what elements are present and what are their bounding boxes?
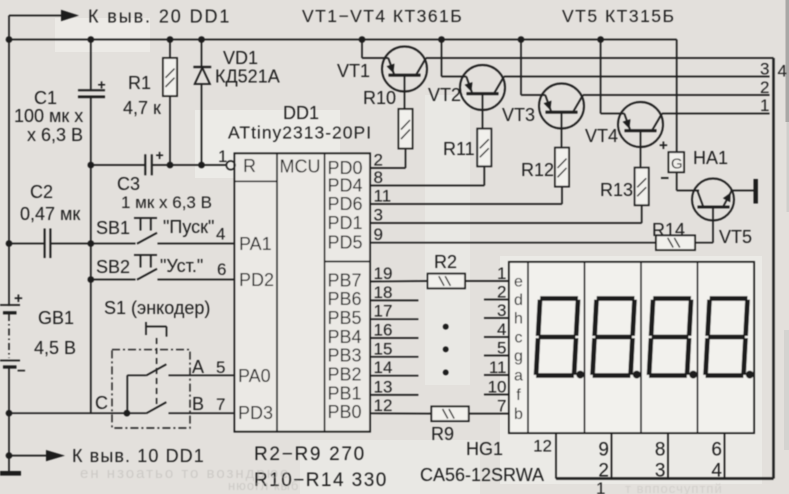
svg-text:6: 6: [217, 260, 226, 279]
svg-text:R1: R1: [128, 73, 151, 93]
svg-text:1: 1: [596, 479, 605, 494]
wire: collector of VT3 to display digit line 2: [583, 94, 770, 96]
svg-text:2: 2: [497, 282, 506, 301]
svg-text:PD2: PD2: [239, 270, 274, 290]
label VT2: [428, 85, 461, 105]
svg-text:0,47 мк: 0,47 мк: [20, 204, 80, 224]
svg-text:4: 4: [216, 225, 225, 244]
resistor R1 4.7k: [163, 40, 177, 166]
svg-text:PB4: PB4: [328, 327, 362, 347]
svg-text:R14: R14: [652, 220, 685, 240]
svg-text:PB3: PB3: [328, 346, 362, 366]
encoder shaft link symbol: [146, 322, 167, 406]
wire: PD5 row to R14: [370, 242, 656, 244]
svg-text:a: a: [514, 368, 523, 385]
label R10: [363, 88, 396, 108]
svg-text:PB6: PB6: [328, 289, 362, 309]
wire: left vertical rail (plus bus): [8, 16, 10, 473]
svg-text:R9: R9: [431, 424, 454, 444]
svg-text:PB1: PB1: [328, 384, 362, 404]
svg-text:1: 1: [218, 147, 227, 166]
svg-text:R11: R11: [443, 139, 475, 159]
encoder dash-dot boundary box: [112, 350, 190, 428]
label C2 0,47 мк: [20, 182, 80, 224]
svg-text:+: +: [98, 77, 106, 93]
pin 7 segment b: [497, 396, 523, 423]
svg-text:100 мк х: 100 мк х: [14, 106, 83, 126]
resistor R12: [555, 112, 569, 204]
label R11: [443, 139, 475, 159]
svg-text:4: 4: [778, 62, 787, 81]
svg-text:PB0: PB0: [328, 402, 362, 422]
pin 11 segment a: [489, 358, 523, 385]
svg-text:х 6,3 В: х 6,3 В: [27, 125, 83, 145]
svg-text:PA1: PA1: [239, 234, 272, 254]
pin 15 PB3: [328, 339, 393, 365]
svg-text:G: G: [671, 156, 683, 173]
svg-text:7: 7: [216, 395, 225, 414]
svg-text:6: 6: [711, 440, 722, 461]
svg-text:R10: R10: [363, 88, 396, 108]
svg-text:9: 9: [374, 225, 383, 244]
wire: collector of VT1 to display digit line 4: [426, 57, 774, 59]
pin 18 PB6: [328, 283, 393, 309]
resistor R14: [656, 235, 713, 250]
junction dots on +rail: [6, 36, 604, 43]
svg-text:b: b: [514, 406, 523, 423]
svg-text:18: 18: [374, 283, 393, 302]
svg-text:PA0: PA0: [238, 366, 271, 386]
svg-text:HA1: HA1: [693, 148, 728, 168]
svg-text:8: 8: [655, 440, 666, 461]
label C1 100 мк х 6,3 В: [14, 88, 83, 145]
display digit 4 decimal point: [746, 371, 754, 379]
display digit 2 decimal point: [633, 371, 641, 379]
svg-text:PD4: PD4: [328, 175, 363, 195]
svg-text:HG1: HG1: [466, 439, 503, 459]
svg-text:VT2: VT2: [428, 85, 461, 105]
svg-text:SB2: SB2: [96, 257, 130, 277]
svg-text:1: 1: [760, 96, 769, 115]
wire: top +supply rail: [9, 39, 677, 41]
op-amp U1: MCU DD1 ATtiny2313-20PI box: [235, 153, 371, 431]
pin 1 R input with inversion bubble: [218, 147, 256, 176]
label node B pin 7: [192, 394, 225, 414]
svg-text:"Пуск": "Пуск": [163, 217, 214, 237]
svg-text:5: 5: [216, 358, 225, 377]
svg-text:VT5: VT5: [719, 227, 752, 247]
pin 2 segment d: [497, 282, 523, 309]
svg-text:GB1: GB1: [38, 308, 74, 328]
pin 1 segment e: [497, 264, 523, 291]
wire: bottom arrow to pin 10 DD1 (common): [6, 450, 65, 461]
svg-text:C2: C2: [30, 182, 53, 202]
switch B to PD3 pin 7: [6, 402, 235, 416]
wire: digit 1 common stub pin 12 to bottom bus: [555, 433, 557, 479]
svg-text:PB5: PB5: [328, 308, 362, 328]
svg-text:15: 15: [374, 339, 393, 358]
svg-text:PD3: PD3: [238, 403, 273, 423]
svg-text:10: 10: [488, 377, 507, 396]
label node C common: [95, 393, 108, 413]
label VD1 КД521А: [215, 48, 280, 87]
pin 8 PD4: [328, 168, 383, 195]
transistor VT5 (NPN) with emitter to chassis: [677, 179, 754, 243]
svg-text:7: 7: [497, 396, 506, 415]
pin 16 PB4: [328, 321, 393, 347]
svg-text:5: 5: [497, 338, 506, 357]
svg-text:КД521А: КД521А: [215, 67, 280, 87]
svg-text:3: 3: [497, 301, 506, 320]
svg-text:e: e: [514, 274, 523, 291]
transistor VT3 (PNP): [539, 84, 584, 129]
wires: display segment stubs: [484, 300, 509, 395]
svg-text:т вппосчуптпй: т вппосчуптпй: [625, 481, 723, 494]
svg-text:B: B: [192, 394, 204, 414]
svg-text:1: 1: [497, 264, 506, 283]
svg-text:CA56-12SRWA: CA56-12SRWA: [420, 465, 544, 485]
pin 9 PD5: [328, 225, 383, 252]
wire: collector of VT2 to display digit line 3: [504, 76, 770, 78]
wire: PD0 row to R10: [370, 167, 406, 169]
label R13: [600, 180, 633, 200]
svg-text:PB7: PB7: [328, 270, 362, 290]
display digit 3 decimal point: [689, 371, 697, 379]
svg-text:R2−R9 270: R2−R9 270: [254, 444, 366, 465]
wire: vertical branch x=91 from C3 row to common row: [90, 165, 92, 413]
wire: emitter of VT2 from +rail: [442, 40, 467, 77]
svg-text:4,5 В: 4,5 В: [34, 338, 76, 358]
pin 14 PB2: [328, 358, 393, 384]
svg-text:VT5 КТ315Б: VT5 КТ315Б: [562, 6, 676, 26]
svg-text:h: h: [514, 311, 523, 328]
wire: digit 2 common stub pin 9: [611, 433, 613, 479]
display digit 1 seven-segment figure: [536, 299, 578, 376]
wire: PD6 row to R12: [370, 203, 562, 205]
svg-text:9: 9: [598, 440, 609, 461]
svg-text:К выв. 10 DD1: К выв. 10 DD1: [72, 446, 205, 466]
svg-text:3: 3: [760, 60, 769, 79]
wire: emitter of VT1 from +rail: [362, 40, 388, 59]
svg-text:12: 12: [533, 437, 552, 456]
encoder S1 with switches A and B: [104, 298, 210, 318]
pin 19 PB7: [328, 264, 393, 290]
svg-text:C3: C3: [117, 174, 140, 194]
svg-text:VT4: VT4: [585, 126, 618, 146]
wires: PB6-PB1 stubs from chip: [370, 300, 418, 395]
pushbutton SB1 Пуск: [134, 218, 235, 244]
wire: emitter of VT3 from +rail: [521, 40, 545, 96]
svg-text:SB1: SB1: [96, 218, 130, 238]
svg-text:PD1: PD1: [328, 213, 363, 233]
svg-text:VT3: VT3: [502, 105, 535, 125]
label pin 8 / line 3: [655, 440, 666, 482]
svg-text:VD1: VD1: [223, 48, 258, 68]
svg-text:8: 8: [374, 168, 383, 187]
svg-text:C1: C1: [34, 88, 57, 108]
display digit 4 seven-segment figure: [706, 299, 748, 376]
svg-text:11: 11: [489, 358, 507, 377]
label R12: [521, 160, 554, 180]
resistor R9: [370, 407, 509, 422]
svg-text:R2: R2: [434, 252, 457, 272]
svg-text:11: 11: [374, 187, 392, 206]
svg-text:ATtiny2313-20PI: ATtiny2313-20PI: [228, 123, 372, 143]
ground: chassis bar at VT5 emitter: [754, 179, 758, 204]
transistor VT2 (PNP): [460, 65, 505, 110]
label SB1 "Пуск" pin 4: [96, 217, 225, 244]
digit line labels 3 4 2 1 at right edge: [760, 60, 787, 116]
svg-text:−: −: [17, 363, 26, 380]
svg-text:DD1: DD1: [283, 103, 319, 123]
buzzer HA1 (sound emitter G): [659, 40, 684, 191]
label SB2 "Уст." pin 6: [96, 256, 226, 279]
svg-text:1 мк х 6,3 В: 1 мк х 6,3 В: [121, 193, 212, 212]
svg-text:4: 4: [497, 320, 506, 339]
svg-text:C: C: [95, 393, 108, 413]
capacitor C2 0.47uF in SB1 row: [6, 229, 136, 259]
svg-text:К выв. 20 DD1: К выв. 20 DD1: [88, 7, 231, 27]
battery GB1 4.5V: [0, 290, 26, 380]
capacitor C1 100uF: [78, 40, 106, 166]
svg-text:"Уст.": "Уст.": [160, 256, 203, 276]
svg-text:VT1−VT4 КТ361Б: VT1−VT4 КТ361Б: [302, 6, 463, 26]
resistor R13: [635, 131, 649, 223]
svg-text:14: 14: [374, 358, 393, 377]
pin 17 PB5: [328, 302, 393, 328]
svg-text:c: c: [515, 330, 523, 347]
svg-text:12: 12: [374, 396, 393, 415]
svg-text:3: 3: [374, 206, 383, 225]
svg-text:R13: R13: [600, 180, 633, 200]
pin 12 PB0: [328, 396, 393, 422]
wire: top arrow to pin 20 DD1 (+supply): [9, 10, 79, 21]
svg-text:f: f: [516, 387, 521, 404]
wire: digit line 4 down right edge to bottom bus: [556, 58, 774, 479]
label C3 1 мк х 6,3 В: [117, 174, 212, 212]
resistor R11: [477, 94, 491, 186]
ellipsis dots for omitted resistors R3-R8: [443, 324, 449, 375]
svg-text:g: g: [514, 348, 523, 365]
pin 11 PD6: [328, 187, 392, 214]
svg-text:S1 (энкодер): S1 (энкодер): [104, 298, 210, 318]
resistor R10: [399, 75, 413, 168]
wire: digit 3 common stub pin 8: [667, 433, 669, 479]
label node A pin 5: [192, 357, 225, 377]
svg-text:MCU: MCU: [280, 157, 321, 177]
svg-text:+: +: [156, 147, 164, 163]
svg-text:R: R: [243, 156, 256, 176]
ground: chassis bar bottom left: [0, 471, 21, 476]
svg-text:19: 19: [374, 264, 393, 283]
label DD1 ATtiny2313-20PI: [228, 103, 372, 143]
display digit 3 seven-segment figure: [649, 299, 691, 376]
svg-text:d: d: [514, 292, 523, 309]
transistor VT1 (PNP): [382, 47, 427, 92]
wire: digit 4 common stub pin 6: [724, 433, 726, 479]
svg-text:PD6: PD6: [328, 194, 363, 214]
pushbutton SB2 Уст.: [88, 255, 235, 283]
svg-text:PD5: PD5: [328, 233, 363, 253]
diode VD1 KD521A: [193, 40, 211, 166]
label VT1: [337, 61, 370, 81]
wire: emitter of VT4 from +rail: [601, 40, 625, 114]
label pin 9 / line 2: [598, 440, 609, 482]
svg-text:3: 3: [655, 461, 666, 482]
pin 4 segment c: [497, 320, 522, 347]
display HG1 CA56-12SRWA outer box: [509, 262, 754, 433]
svg-text:2: 2: [374, 151, 383, 170]
pin 3 PD1: [328, 206, 383, 233]
label VT4: [585, 126, 618, 146]
svg-text:R12: R12: [521, 160, 554, 180]
svg-text:4,7 к: 4,7 к: [123, 98, 161, 118]
label GB1 4,5 В: [34, 308, 76, 358]
label R1 4,7 к: [123, 73, 161, 118]
wire: collector of VT4 to display digit line 1: [662, 113, 770, 115]
svg-text:17: 17: [374, 302, 393, 321]
pin 2 PD0: [328, 151, 383, 178]
svg-text:нюогл кыб: нюогл кыб: [228, 478, 299, 493]
wire: node R row (pin1) with capacitor C3 1uF: [88, 147, 227, 175]
svg-text:PB2: PB2: [328, 365, 362, 385]
svg-text:+: +: [659, 137, 668, 154]
svg-text:2: 2: [760, 78, 769, 97]
pin 10 segment f: [488, 377, 522, 404]
label pin 6 / line 4: [711, 440, 722, 482]
wire: PD4 row to R11: [370, 185, 484, 187]
svg-text:16: 16: [374, 321, 393, 340]
svg-text:13: 13: [374, 377, 393, 396]
display digit 2 seven-segment figure: [593, 299, 635, 376]
svg-text:4: 4: [711, 461, 722, 482]
svg-text:VT1: VT1: [337, 61, 370, 81]
pin 13 PB1: [328, 377, 393, 403]
switch A to PA0 pin 5: [127, 364, 234, 413]
wire: PD1 row to R13: [370, 222, 642, 224]
label VT3: [502, 105, 535, 125]
pin 5 segment g: [497, 338, 523, 365]
svg-text:A: A: [192, 357, 204, 377]
transistor VT4 (PNP): [618, 102, 663, 147]
resistor R2: [370, 274, 509, 289]
pin 3 segment h: [497, 301, 523, 328]
display digit 1 decimal point: [576, 371, 584, 379]
